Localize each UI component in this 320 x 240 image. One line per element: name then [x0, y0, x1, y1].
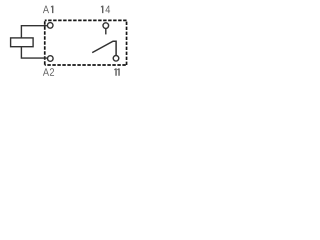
wire coil top lead to A1	[21, 26, 47, 38]
label A1	[43, 6, 54, 13]
label 14	[101, 6, 110, 13]
relay case outline: left dashed border	[44, 20, 46, 65]
wire terminal 14 stem	[105, 28, 107, 34]
terminal A2	[48, 56, 54, 62]
relay case outline: bottom dashed border	[45, 64, 127, 66]
wire coil bottom lead to A2	[21, 47, 47, 58]
coil K1	[11, 38, 33, 47]
terminal 14	[103, 23, 109, 29]
label A2	[43, 68, 54, 76]
terminal A1	[47, 23, 53, 29]
contact blade (NO contact, open) and wire down to 11	[92, 41, 116, 55]
terminal 11	[113, 56, 119, 62]
relay case outline: top dashed border	[45, 19, 127, 21]
label 11	[114, 68, 120, 75]
relay case outline: right dashed border	[126, 20, 128, 65]
